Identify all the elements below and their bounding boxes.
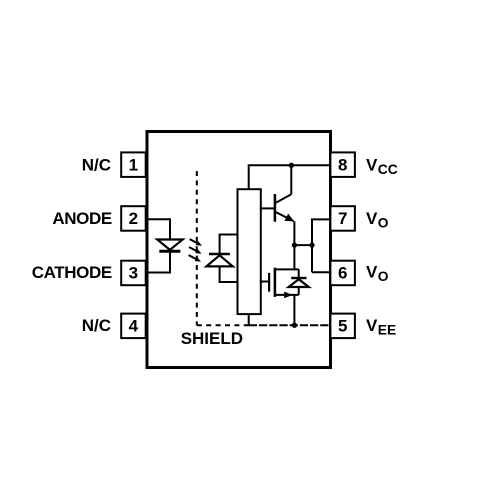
- svg-text:CC: CC: [378, 162, 398, 177]
- svg-text:O: O: [378, 215, 389, 230]
- svg-text:SHIELD: SHIELD: [181, 329, 243, 348]
- svg-text:N/C: N/C: [82, 316, 111, 335]
- svg-text:V: V: [366, 316, 378, 335]
- svg-text:7: 7: [338, 209, 347, 228]
- node VEE junction dot: [292, 323, 297, 328]
- svg-text:N/C: N/C: [82, 156, 111, 175]
- wire amp to Q1 base: [260, 207, 275, 209]
- label VEE pin 5: [366, 316, 396, 338]
- svg-text:8: 8: [338, 156, 347, 175]
- light arrow 2: [189, 247, 201, 254]
- pin 7 box: [330, 206, 355, 231]
- pin 6 box: [330, 261, 355, 286]
- pin 8 box: [330, 152, 355, 177]
- svg-text:6: 6: [338, 263, 347, 282]
- pin 3 box: [121, 261, 146, 286]
- svg-text:O: O: [378, 269, 389, 284]
- svg-text:ANODE: ANODE: [52, 209, 111, 228]
- LED D1: [157, 240, 183, 252]
- wire Q1 collector to VCC rail: [290, 165, 292, 194]
- transistor Q1: [275, 194, 294, 222]
- pin 4 box: [121, 314, 146, 339]
- svg-text:2: 2: [129, 209, 138, 228]
- MOSFET M1: [269, 268, 299, 299]
- wire pin2 to LED anode: [147, 219, 170, 239]
- wire photodiode cathode to amp: [220, 235, 238, 255]
- wire amp to M1 gate: [260, 281, 268, 283]
- wire amp bottom to VEE rail: [248, 314, 250, 325]
- light arrow 1: [190, 239, 202, 246]
- node output junction dot right: [309, 242, 314, 247]
- pin 5 box: [330, 314, 355, 339]
- node output junction dot left: [292, 242, 297, 247]
- svg-text:V: V: [366, 156, 378, 175]
- label VO pin 7: [366, 209, 389, 231]
- wire photodiode anode to amp: [220, 266, 238, 282]
- svg-text:3: 3: [129, 263, 138, 282]
- pin 1 box: [121, 152, 146, 177]
- svg-text:CATHODE: CATHODE: [32, 263, 112, 282]
- wire output node cross link: [294, 244, 312, 246]
- svg-text:EE: EE: [378, 322, 396, 337]
- wire output node to pin6: [312, 271, 330, 273]
- wire amp top to VCC rail: [249, 165, 331, 189]
- wire LED cathode to pin3: [147, 251, 170, 272]
- pin 2 box: [121, 206, 146, 231]
- shield dashed vertical line: [196, 171, 198, 325]
- node VCC junction dot: [289, 163, 294, 168]
- diode D3: [289, 269, 309, 295]
- light arrow 3: [189, 255, 201, 262]
- wire pin7 to output node: [312, 219, 330, 272]
- label VO pin 6: [366, 263, 389, 285]
- label VCC pin 8: [366, 156, 398, 178]
- photodiode D2: [206, 254, 232, 266]
- svg-text:1: 1: [129, 156, 138, 175]
- amplifier block U1: [238, 189, 261, 314]
- shield dashed horizontal left segment: [197, 324, 249, 326]
- wire M1 source to VEE rail: [293, 295, 295, 325]
- svg-text:V: V: [366, 209, 378, 228]
- svg-text:5: 5: [338, 316, 347, 335]
- svg-text:V: V: [366, 263, 378, 282]
- wire Q1 emitter down to output node: [293, 221, 295, 269]
- IC package outline: [147, 132, 331, 368]
- VEE rail dashed segment to pin 5: [249, 324, 331, 326]
- svg-text:4: 4: [129, 316, 139, 335]
